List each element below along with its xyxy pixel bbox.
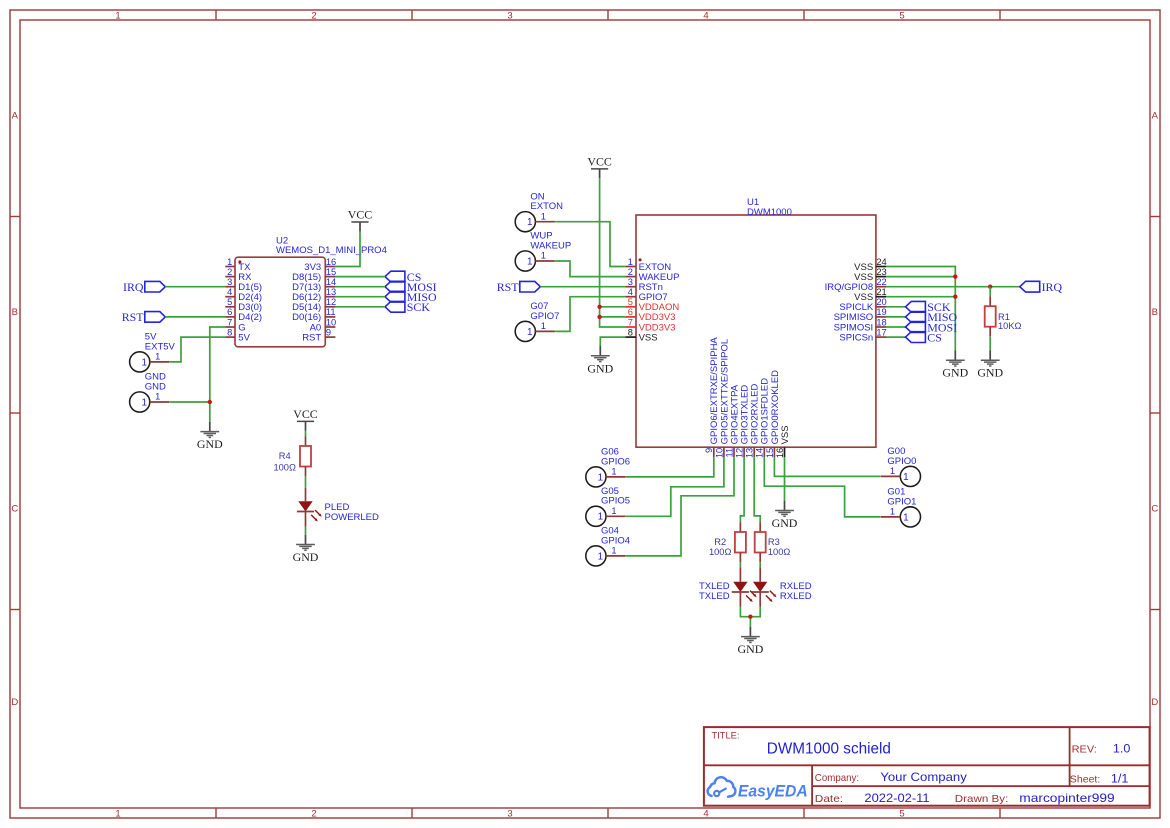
svg-text:RST: RST <box>302 332 321 343</box>
svg-text:15: 15 <box>326 267 336 277</box>
svg-text:3: 3 <box>628 277 633 287</box>
svg-text:11: 11 <box>326 307 336 317</box>
svg-text:RST: RST <box>122 310 145 324</box>
wire R3 to RXLED <box>759 562 761 567</box>
wire U1 pin16 VSS to ground <box>784 457 786 500</box>
LED RXLED <box>752 567 812 607</box>
wire IRQ net down to R1 <box>989 287 991 297</box>
svg-text:7: 7 <box>628 317 633 327</box>
svg-text:1: 1 <box>115 11 120 22</box>
svg-text:A: A <box>12 110 19 121</box>
net flag MISO port at U2 <box>385 290 437 304</box>
svg-text:IRQ: IRQ <box>123 280 144 294</box>
wire U2 pin14 to MOSI <box>335 286 385 288</box>
svg-text:1: 1 <box>903 472 909 483</box>
svg-text:GND: GND <box>942 366 968 380</box>
power flag VCC above U1 <box>587 154 612 178</box>
svg-text:GPIO6: GPIO6 <box>601 456 630 467</box>
svg-text:D: D <box>1151 697 1158 708</box>
svg-text:14: 14 <box>755 448 765 458</box>
svg-text:A: A <box>1152 110 1159 121</box>
svg-text:Drawn By:: Drawn By: <box>955 793 1009 805</box>
svg-text:R3: R3 <box>768 537 780 547</box>
svg-text:10: 10 <box>326 317 336 327</box>
svg-text:1: 1 <box>527 327 533 338</box>
ground left of U1 <box>587 346 613 375</box>
svg-text:GND: GND <box>772 516 798 530</box>
svg-text:DWM1000 schield: DWM1000 schield <box>767 741 891 758</box>
wire U1 pin23 VSS branch <box>886 276 955 278</box>
IC U2 WEMOS_D1_MINI_PRO4 <box>225 235 387 346</box>
svg-text:4: 4 <box>628 287 633 297</box>
svg-text:13: 13 <box>745 448 755 458</box>
svg-text:1: 1 <box>541 211 546 221</box>
wire RST flag to U2 pin6 <box>165 316 225 318</box>
svg-text:4: 4 <box>703 11 708 22</box>
svg-text:TXLED: TXLED <box>699 591 730 602</box>
junction VSS rail at pin21 row <box>953 295 957 299</box>
ground below LEDs <box>738 627 764 656</box>
svg-text:1: 1 <box>611 546 616 556</box>
svg-text:EXTON: EXTON <box>530 201 563 212</box>
wire U1 pin17 to CS <box>886 336 906 338</box>
wire U1 pin21 VSS branch <box>886 296 955 298</box>
wire IRQ flag to U2 pin3 <box>165 286 225 288</box>
svg-text:GPIO5: GPIO5 <box>601 496 630 507</box>
connector WAKEUP <box>515 231 571 271</box>
wire U1 pin13 to R3 <box>754 457 760 522</box>
wire U2 pin15 to CS <box>335 276 385 278</box>
wire U1 pin15 to G00 <box>774 457 880 476</box>
resistor R4 <box>273 436 311 476</box>
power flag VCC above R4 <box>293 407 318 431</box>
svg-text:R4: R4 <box>279 451 291 461</box>
wire EXTON to U1 pin1 <box>555 222 625 267</box>
net flag MOSI port at U2 <box>385 280 437 294</box>
svg-text:Date:: Date: <box>815 793 843 805</box>
svg-text:15: 15 <box>765 448 775 458</box>
svg-text:1: 1 <box>115 808 120 819</box>
svg-text:Company:: Company: <box>815 772 859 784</box>
connector GND header <box>130 372 170 412</box>
svg-text:GND: GND <box>738 642 764 656</box>
svg-text:23: 23 <box>876 267 886 277</box>
svg-text:10: 10 <box>714 448 724 458</box>
wire U1 pin11 to G04 <box>626 457 734 556</box>
svg-text:2: 2 <box>628 267 633 277</box>
power flag VCC above U2 <box>348 207 373 231</box>
svg-text:RST: RST <box>497 280 520 294</box>
svg-text:19: 19 <box>876 307 886 317</box>
svg-text:18: 18 <box>876 317 886 327</box>
svg-text:Your Company: Your Company <box>880 770 967 784</box>
svg-text:GPIO7: GPIO7 <box>530 311 559 322</box>
ground below PLED <box>293 535 319 564</box>
svg-text:1: 1 <box>141 397 147 408</box>
svg-text:8: 8 <box>227 327 232 337</box>
connector G01 <box>881 487 921 527</box>
wire U2 pin13 to MISO <box>335 296 385 298</box>
IC U1 DWM1000 <box>625 197 886 458</box>
svg-text:2022-02-11: 2022-02-11 <box>864 791 929 805</box>
net flag RST (left of U2) <box>122 310 166 324</box>
connector G07 <box>515 301 559 341</box>
wire U1 pin22 IRQ to flag <box>886 286 1020 288</box>
wire U1 pin20 to SCK <box>886 306 906 308</box>
svg-text:1: 1 <box>611 467 616 477</box>
svg-text:1: 1 <box>527 217 533 228</box>
connector G05 <box>586 486 630 526</box>
svg-text:1.0: 1.0 <box>1113 743 1131 755</box>
svg-text:1: 1 <box>541 251 546 261</box>
junction IRQ net at R1 <box>988 285 992 289</box>
svg-text:6: 6 <box>227 307 232 317</box>
net flag CS port at U1 <box>906 330 942 344</box>
svg-text:GND: GND <box>977 366 1003 380</box>
svg-text:1: 1 <box>903 512 909 523</box>
svg-text:13: 13 <box>326 287 336 297</box>
resistor R2 <box>709 522 746 562</box>
wire U1 pin14 to G01 <box>764 457 880 517</box>
LED PLED POWERLED <box>297 488 379 527</box>
svg-text:EasyEDA: EasyEDA <box>738 781 808 800</box>
svg-text:11: 11 <box>724 448 734 458</box>
svg-text:WEMOS_D1_MINI_PRO4: WEMOS_D1_MINI_PRO4 <box>276 245 387 256</box>
svg-text:2: 2 <box>227 267 232 277</box>
svg-text:SCK: SCK <box>407 300 431 314</box>
svg-text:5: 5 <box>899 11 904 22</box>
svg-text:6: 6 <box>628 307 633 317</box>
svg-text:16: 16 <box>326 257 336 267</box>
wire U1 pin8 VSS to ground <box>600 337 625 346</box>
svg-text:7: 7 <box>227 317 232 327</box>
svg-text:R2: R2 <box>714 537 726 547</box>
wire VCC to U2 pin16 (3V3) <box>335 231 360 266</box>
svg-text:VCC: VCC <box>587 154 612 168</box>
junction VCC at pin6 row <box>597 315 601 319</box>
svg-text:DWM1000: DWM1000 <box>747 207 792 218</box>
ground VSS rail right of U1 <box>942 350 968 379</box>
svg-text:GPIO0: GPIO0 <box>887 456 916 467</box>
svg-text:21: 21 <box>876 287 886 297</box>
net flag RST (left of U1) <box>497 280 541 294</box>
wire WAKEUP to U1 pin2 <box>555 261 625 277</box>
wire G07 to U1 pin4 <box>555 297 625 332</box>
svg-text:100Ω: 100Ω <box>273 462 296 472</box>
connector EXTON <box>515 191 563 231</box>
svg-text:1: 1 <box>598 472 604 483</box>
wire R4 to PLED <box>305 476 307 488</box>
svg-text:12: 12 <box>326 297 336 307</box>
svg-text:C: C <box>1151 503 1158 514</box>
wire U1 pin19 to MISO <box>886 316 906 318</box>
wire U1 pin9 to G06 <box>626 457 714 477</box>
svg-text:24: 24 <box>876 257 886 267</box>
junction LED ground node <box>748 615 752 619</box>
wire RST flag to U1 pin3 <box>540 286 625 288</box>
wire U1 pin24 VSS to ground rail <box>886 267 955 351</box>
junction GND net at header <box>208 400 212 404</box>
wire PLED to ground <box>305 527 307 535</box>
wire GND header to ground net <box>170 401 210 403</box>
resistor R1 <box>985 296 1022 336</box>
svg-text:3: 3 <box>507 808 512 819</box>
svg-text:WAKEUP: WAKEUP <box>530 240 571 251</box>
wire VCC branch to U1 pin6 VDD3V3 <box>600 316 626 318</box>
title block <box>704 727 1150 806</box>
svg-text:VCC: VCC <box>293 407 318 421</box>
EasyEDA logo <box>708 777 808 800</box>
net flag MISO port at U1 <box>906 310 958 324</box>
svg-text:100Ω: 100Ω <box>768 547 791 557</box>
wire LED cathodes to ground <box>740 607 760 617</box>
connector EXT5V <box>130 332 176 372</box>
svg-text:GPIO1: GPIO1 <box>887 496 916 507</box>
svg-text:9: 9 <box>326 327 331 337</box>
svg-text:5: 5 <box>227 297 232 307</box>
net flag IRQ (right) <box>1020 280 1063 294</box>
svg-text:1: 1 <box>155 352 160 362</box>
wire VCC branch to U1 pin5 VDDAON <box>600 306 626 308</box>
svg-text:3: 3 <box>227 277 232 287</box>
wire U1 pin10 to G05 <box>626 457 724 516</box>
connector G06 <box>586 447 630 487</box>
svg-text:B: B <box>1152 307 1158 318</box>
net flag CS port at U2 <box>385 270 421 284</box>
svg-text:9: 9 <box>704 448 714 453</box>
svg-text:RXLED: RXLED <box>780 591 812 602</box>
svg-text:4: 4 <box>703 808 708 819</box>
svg-text:1: 1 <box>541 321 546 331</box>
svg-text:2: 2 <box>311 11 316 22</box>
svg-text:1: 1 <box>611 506 616 516</box>
wire LED ground stem <box>749 617 751 627</box>
connector G04 <box>586 526 630 566</box>
svg-text:5: 5 <box>628 297 633 307</box>
svg-text:marcopinter999: marcopinter999 <box>1019 791 1114 805</box>
svg-text:3: 3 <box>507 11 512 22</box>
svg-text:1: 1 <box>155 392 160 402</box>
ground below U2 <box>197 422 223 451</box>
wire R2 to TXLED <box>739 562 741 567</box>
wire EXT5V to U2 pin8 (5V) <box>170 337 226 362</box>
svg-text:REV:: REV: <box>1072 743 1097 755</box>
svg-text:GND: GND <box>587 361 613 375</box>
svg-text:100Ω: 100Ω <box>709 547 732 557</box>
svg-text:B: B <box>12 307 18 318</box>
net flag MOSI port at U1 <box>906 320 958 334</box>
svg-text:GPIO4: GPIO4 <box>601 535 630 546</box>
svg-text:10KΩ: 10KΩ <box>998 321 1022 331</box>
svg-text:1: 1 <box>141 357 147 368</box>
wire VCC rail into U1 VDD pins <box>600 178 626 327</box>
svg-text:1/1: 1/1 <box>1111 774 1129 786</box>
svg-text:GND: GND <box>145 381 166 392</box>
junction VCC at pin5 row <box>597 305 601 309</box>
svg-text:2: 2 <box>311 808 316 819</box>
svg-text:POWERLED: POWERLED <box>325 512 380 523</box>
svg-text:1: 1 <box>527 256 533 267</box>
svg-text:Sheet:: Sheet: <box>1070 774 1101 786</box>
svg-text:IRQ: IRQ <box>1042 280 1063 294</box>
svg-text:16: 16 <box>775 448 785 458</box>
svg-text:VSS: VSS <box>780 425 791 444</box>
connector G00 <box>881 446 921 486</box>
svg-text:GND: GND <box>293 550 319 564</box>
svg-text:VSS: VSS <box>639 332 658 343</box>
wire U2 pin7 (G) down to ground <box>210 327 226 422</box>
net flag SCK port at U1 <box>906 300 951 314</box>
junction VSS rail at pin23 row <box>953 274 957 278</box>
svg-text:12: 12 <box>735 448 745 458</box>
svg-text:1: 1 <box>598 512 604 523</box>
svg-text:5: 5 <box>899 808 904 819</box>
wire U2 pin12 to SCK <box>335 306 385 308</box>
wire R1 to ground <box>989 337 991 351</box>
svg-text:D: D <box>11 697 18 708</box>
ground below R1 <box>977 350 1003 379</box>
net flag IRQ (left of U2) <box>123 280 165 294</box>
LED TXLED <box>699 567 757 607</box>
svg-text:14: 14 <box>326 277 336 287</box>
net flag SCK port at U2 <box>385 300 430 314</box>
svg-text:1: 1 <box>628 257 633 267</box>
ground below U1 pin16 <box>772 501 798 530</box>
svg-text:C: C <box>11 503 18 514</box>
wire U1 pin12 to R2 <box>740 457 744 522</box>
svg-text:SPICSn: SPICSn <box>839 332 873 343</box>
svg-text:GND: GND <box>197 437 223 451</box>
svg-text:20: 20 <box>876 297 886 307</box>
svg-text:TITLE:: TITLE: <box>712 730 740 741</box>
svg-text:1: 1 <box>227 257 232 267</box>
svg-text:5V: 5V <box>238 332 250 343</box>
wire VCC to R4 <box>305 431 307 436</box>
wire U1 pin18 to MOSI <box>886 326 906 328</box>
svg-text:EXT5V: EXT5V <box>145 341 176 352</box>
svg-text:1: 1 <box>598 551 604 562</box>
svg-text:8: 8 <box>628 327 633 337</box>
svg-text:1: 1 <box>890 507 895 517</box>
svg-text:4: 4 <box>227 287 232 297</box>
svg-text:CS: CS <box>927 330 942 344</box>
resistor R3 <box>755 522 791 562</box>
svg-text:1: 1 <box>890 466 895 476</box>
svg-text:17: 17 <box>876 327 886 337</box>
svg-text:VCC: VCC <box>348 207 373 221</box>
svg-text:22: 22 <box>876 277 886 287</box>
